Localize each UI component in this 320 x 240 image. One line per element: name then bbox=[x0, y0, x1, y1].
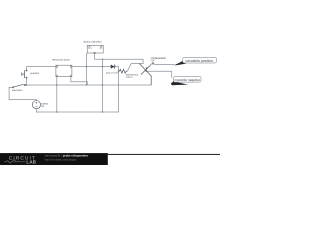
junction dot (85.8,66.4) bbox=[86, 66, 87, 67]
net flag cocodrilo positivo bbox=[174, 57, 216, 65]
switch SW1 interruptor bbox=[13, 84, 26, 88]
svg-text:semusasu34 / probe chispometro: semusasu34 / probe chispometro bbox=[45, 153, 89, 157]
footer rule line bbox=[108, 154, 220, 155]
svg-text:display calibration: display calibration bbox=[83, 40, 102, 43]
wire display left riser bbox=[85, 53, 87, 85]
wire capacitor to positive flag bbox=[154, 63, 175, 66]
junction dot bottom bus x102 bbox=[102, 111, 103, 112]
wire board BR staircase bbox=[71, 77, 87, 85]
junction dot (118.5,71.2) bbox=[118, 71, 119, 72]
junction dot (56.8,85) bbox=[56, 84, 57, 85]
svg-text:6V: 6V bbox=[41, 105, 44, 108]
wire pushbutton bottom lead bbox=[26, 78, 28, 85]
pushbutton SW2 pulsador bbox=[22, 70, 27, 78]
wire diode cathode step down bbox=[115, 67, 119, 72]
wire battery bottom to bottom bus and riser bbox=[36, 71, 118, 112]
svg-text:diodo 1N4148: diodo 1N4148 bbox=[106, 71, 118, 74]
wire display bottom pin to feeder bbox=[95, 54, 103, 60]
wire board BL riser bbox=[56, 77, 58, 112]
svg-text:dc: dc bbox=[99, 48, 101, 50]
spark gap electrode B bbox=[141, 64, 151, 74]
wire board TR to diode bbox=[72, 66, 111, 68]
svg-text:pulsador: pulsador bbox=[30, 72, 39, 75]
svg-text:cocodrilo negativo: cocodrilo negativo bbox=[174, 78, 200, 82]
svg-text:100 Ω: 100 Ω bbox=[126, 76, 133, 79]
logo waveform bbox=[4, 160, 25, 163]
subcircuit U1 display calibration bbox=[87, 45, 103, 53]
battery V1 bbox=[32, 101, 40, 109]
wire interruptor left to battery top bbox=[9, 87, 36, 100]
svg-text:LAB: LAB bbox=[26, 160, 36, 165]
junction dot bottom bus x57 bbox=[56, 111, 57, 112]
junction dot pushbutton/interruptor/bus bbox=[26, 84, 27, 85]
junction dot (102.2,66.4) bbox=[102, 66, 103, 67]
svg-text:electronica board: electronica board bbox=[52, 58, 70, 61]
resistor R1 bbox=[119, 69, 128, 73]
svg-text:bateria: bateria bbox=[41, 102, 49, 105]
junction dot (102.2,59.5) bbox=[102, 59, 103, 60]
svg-text:interruptor: interruptor bbox=[12, 89, 23, 92]
capacitor C1 plates bbox=[152, 62, 155, 65]
wire feeder to spark hat bbox=[103, 59, 144, 63]
junction dot (102.2,85) bbox=[102, 84, 103, 85]
svg-text:ds: ds bbox=[91, 48, 93, 50]
svg-text:http://circuitlab.com/capqwy: http://circuitlab.com/capqwy bbox=[45, 158, 78, 161]
net flag cocodrilo negativo bbox=[171, 77, 201, 86]
spark gap electrode A bbox=[139, 64, 151, 86]
wire spark to negative flag bbox=[147, 71, 172, 78]
wire long vertical bbox=[102, 59, 104, 112]
junction dot (85.8,85) bbox=[86, 84, 87, 85]
diode D1 bbox=[111, 65, 115, 69]
watermark bar bbox=[0, 153, 220, 165]
wire resistor to hat diagonal bbox=[127, 64, 143, 72]
wire pushbutton top to board TL pin bbox=[27, 67, 57, 71]
subcircuit U2 electronics board bbox=[56, 65, 72, 76]
wire mid bus bbox=[27, 84, 152, 86]
svg-text:1 µF: 1 µF bbox=[151, 59, 156, 62]
svg-text:cocodrilo positivo: cocodrilo positivo bbox=[185, 59, 213, 63]
